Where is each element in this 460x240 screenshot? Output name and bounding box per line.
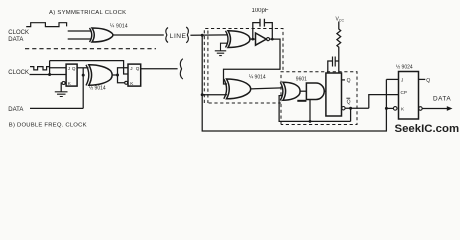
wire DATA B xyxy=(30,107,83,109)
notQ bubble FF3 xyxy=(419,107,423,111)
svg-text:DATA: DATA xyxy=(8,37,23,43)
branch to J2 xyxy=(118,68,129,75)
one-shot 9601 body xyxy=(326,73,342,116)
wire xor2 out to xor3 xyxy=(251,88,282,89)
clock waveform B xyxy=(30,67,50,70)
wire gate A out to line break xyxy=(113,34,164,36)
svg-text:CLOCK: CLOCK xyxy=(8,70,29,76)
wire R to 9601 pin xyxy=(338,61,340,73)
dashed inner vertical xyxy=(207,31,209,104)
wire Q1 to xor B xyxy=(77,67,88,69)
wire and out to 9601 xyxy=(324,90,326,92)
svg-text:K: K xyxy=(68,81,72,86)
wire J1 xyxy=(50,67,67,69)
xor gate U1a (1/4 9014) xyxy=(90,28,92,42)
riser DATA B xyxy=(82,68,84,109)
svg-text:VCC: VCC xyxy=(336,17,345,23)
svg-text:DATA: DATA xyxy=(433,96,451,103)
line bottom loop wire xyxy=(202,35,386,131)
dashed separator A/B xyxy=(25,48,156,50)
svg-text:¼ 9014: ¼ 9014 xyxy=(110,24,128,30)
svg-text:½ 9024: ½ 9024 xyxy=(396,64,413,71)
svg-text:DATA: DATA xyxy=(8,107,23,113)
svg-text:B) DOUBLE FREQ. CLOCK: B) DOUBLE FREQ. CLOCK xyxy=(9,122,87,128)
node K tap xyxy=(385,107,388,110)
wire feedback to xor3 lower input xyxy=(279,96,351,122)
svg-text:CLOCK: CLOCK xyxy=(8,30,29,36)
capacitor C2 plates xyxy=(333,57,336,67)
node and feedback tap xyxy=(309,120,312,123)
wire Q2 out xyxy=(141,68,178,70)
node clock B junction xyxy=(48,73,51,76)
K1 bubble xyxy=(62,82,65,85)
top wire to FF2 clock xyxy=(50,61,128,74)
branch to K2 xyxy=(118,75,125,83)
K input bubble FF3 xyxy=(393,107,397,111)
svg-text:J: J xyxy=(130,66,132,71)
node osc out xyxy=(271,38,274,41)
svg-text:CP: CP xyxy=(401,90,407,95)
svg-text:LINE: LINE xyxy=(170,33,187,40)
wire xor3 to and xyxy=(300,90,306,92)
wire clock A to gate xyxy=(68,30,91,32)
buffer U2b xyxy=(256,33,267,45)
K2 bubble xyxy=(125,81,128,84)
ground at oscillator xor input xyxy=(215,43,228,55)
wire line to receiver xyxy=(190,34,228,36)
osc output wire down to xor2 xyxy=(224,39,281,84)
svg-text:J: J xyxy=(68,66,70,71)
9601 Q output stub xyxy=(342,79,346,81)
svg-text:Q: Q xyxy=(347,78,351,84)
clock waveform A xyxy=(26,23,66,27)
wire step up to CP xyxy=(369,95,399,109)
wire notQ feedback down xyxy=(350,108,352,121)
flip-flop FF2 body xyxy=(128,64,141,86)
capacitor C1 feedback risers xyxy=(253,23,272,39)
wire data A to gate xyxy=(68,38,91,40)
xor gate U2c (1/4 9014) second row xyxy=(224,79,227,99)
wire and bottom input from feedback xyxy=(297,100,306,102)
Q output FF3 xyxy=(419,78,426,80)
wire notQ to junction xyxy=(345,107,369,109)
flip-flop FF1 body xyxy=(66,64,77,86)
capacitor C1 plates xyxy=(260,19,264,27)
wire xor B out xyxy=(113,74,118,76)
riser clock B xyxy=(49,61,51,75)
svg-text:Q: Q xyxy=(347,100,351,106)
xor gate B (1/2 9014) xyxy=(86,65,89,86)
9601 notQ bubble xyxy=(342,107,345,110)
dashed box 9601 xyxy=(281,72,357,125)
svg-text:100pF: 100pF xyxy=(252,8,269,14)
flip-flop 9024 body xyxy=(399,72,419,120)
capacitor C2 wires xyxy=(328,61,339,73)
brace B output xyxy=(180,59,182,79)
ground B xyxy=(55,92,68,97)
resistor R1 xyxy=(337,22,341,62)
svg-text:¼ 9014: ¼ 9014 xyxy=(249,75,266,81)
wire K1 to ground xyxy=(60,83,63,92)
and gate U3b xyxy=(306,83,324,100)
svg-text:Q: Q xyxy=(426,78,430,84)
node notQ junction xyxy=(349,107,352,110)
wire to J input xyxy=(386,78,398,80)
node line tap xyxy=(201,93,204,96)
svg-text:K: K xyxy=(401,107,405,112)
xor gate U2a oscillator xyxy=(226,31,229,48)
wire xor to buffer xyxy=(250,38,256,40)
wire to K bubble xyxy=(386,107,393,109)
svg-text:½ 9014: ½ 9014 xyxy=(89,84,106,91)
wire line tap to xor2 lower input xyxy=(202,94,227,96)
svg-text:9601: 9601 xyxy=(296,76,307,82)
dashed box receiver left xyxy=(204,29,283,104)
wire clock B xyxy=(30,74,67,76)
svg-text:J: J xyxy=(401,78,403,83)
node xor B out xyxy=(116,74,119,77)
svg-text:SeekIC.com: SeekIC.com xyxy=(395,123,460,135)
node data tap xyxy=(82,74,85,77)
brace left of LINE xyxy=(166,28,168,43)
node osc in xyxy=(251,38,254,41)
xor gate U3a edge detector xyxy=(280,82,283,100)
svg-text:Q: Q xyxy=(72,66,76,71)
svg-text:A) SYMMETRICAL CLOCK: A) SYMMETRICAL CLOCK xyxy=(49,10,126,16)
node line junction xyxy=(201,34,204,37)
arrowhead DATA xyxy=(447,106,453,111)
svg-text:Q: Q xyxy=(136,66,140,71)
brace right of LINE xyxy=(186,27,188,43)
wire DATA out xyxy=(422,108,448,110)
svg-text:K: K xyxy=(130,81,134,86)
